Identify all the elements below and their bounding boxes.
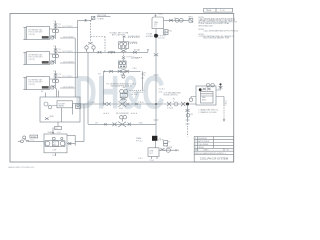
svg-text:DESC: DESC xyxy=(204,150,210,152)
svg-text:PG: PG xyxy=(168,142,170,144)
svg-text:GB-1: GB-1 xyxy=(123,87,127,89)
svg-text:PG: PG xyxy=(164,31,166,33)
svg-text:3: 3 xyxy=(195,141,196,143)
svg-text:ISSUE: ISSUE xyxy=(198,147,204,149)
svg-text:PG-1: PG-1 xyxy=(169,31,173,33)
svg-text:1"x3/4": 1"x3/4" xyxy=(52,150,57,152)
svg-text:PANEL: PANEL xyxy=(59,105,64,108)
svg-text:SKID: SKID xyxy=(50,116,55,118)
svg-text:PG: PG xyxy=(164,33,166,35)
svg-text:RE-ISSUE: RE-ISSUE xyxy=(198,138,207,140)
svg-text:01: 01 xyxy=(144,75,146,77)
svg-text:2"-N-11: 2"-N-11 xyxy=(90,102,96,104)
svg-text:P-1: P-1 xyxy=(53,142,56,144)
svg-text:AT P-2 B/P KPA: AT P-2 B/P KPA xyxy=(112,33,126,36)
svg-text:1"D-3: 1"D-3 xyxy=(52,155,56,157)
svg-text:1-1/2"-CW-102: 1-1/2"-CW-102 xyxy=(63,37,74,39)
svg-text:1-1/2"-N-1: 1-1/2"-N-1 xyxy=(158,38,165,40)
svg-text:GB 50030(PIPE) SCH-40: GB 50030(PIPE) SCH-40 xyxy=(111,85,132,87)
svg-text:DRAIN: DRAIN xyxy=(136,137,142,140)
svg-text:N2 PURGE(2B): N2 PURGE(2B) xyxy=(116,113,129,115)
svg-text:POT: POT xyxy=(154,24,157,26)
svg-text:PG: PG xyxy=(174,18,176,20)
svg-text:POT V-2: POT V-2 xyxy=(136,141,143,143)
svg-text:COG: COG xyxy=(159,92,164,94)
svg-text:4: 4 xyxy=(195,138,196,140)
svg-text:VENT LINE: VENT LINE xyxy=(97,15,107,17)
svg-text:FCV-1: FCV-1 xyxy=(119,108,123,110)
svg-text:2"N-8: 2"N-8 xyxy=(139,122,143,124)
svg-text:HOLDER: HOLDER xyxy=(146,36,153,38)
svg-text:2: 2 xyxy=(195,144,196,146)
svg-text:2"-N-12: 2"-N-12 xyxy=(138,102,144,104)
svg-text:COG_PA G.R SYSTEM: COG_PA G.R SYSTEM xyxy=(200,156,229,160)
svg-text:2"-N-13: 2"-N-13 xyxy=(167,107,173,109)
svg-text:( NOTE ): ( NOTE ) xyxy=(29,34,36,36)
svg-text:VENT: VENT xyxy=(159,13,163,15)
svg-text:CHG ISSUE: CHG ISSUE xyxy=(198,144,209,146)
svg-text:AND DESIGN AT AMBIENT TEMP: AND DESIGN AT AMBIENT TEMP xyxy=(204,37,231,40)
svg-text:1-1/2"-CW-101: 1-1/2"-CW-101 xyxy=(62,26,73,28)
svg-text:HOUSE ( NOTE 2 ): HOUSE ( NOTE 2 ) xyxy=(164,94,179,96)
svg-text:1"-D-1: 1"-D-1 xyxy=(138,158,143,160)
svg-text:2"N-9: 2"N-9 xyxy=(133,68,137,70)
svg-text:( 2 SAMPLE COOLER: ( 2 SAMPLE COOLER xyxy=(199,111,218,114)
svg-text:JOG60: JOG60 xyxy=(31,136,36,138)
svg-text:LS-1: LS-1 xyxy=(31,140,34,142)
svg-text:( 1 ANALYZER UNIT X-1: ( 1 ANALYZER UNIT X-1 xyxy=(199,108,219,111)
svg-text:2. ALL INSTRUMENT AIR SUPPLY F: 2. ALL INSTRUMENT AIR SUPPLY FROM UNIT xyxy=(204,30,239,33)
svg-text:1"-D-2: 1"-D-2 xyxy=(150,160,155,162)
svg-text:1-1/2"-N-10: 1-1/2"-N-10 xyxy=(131,58,139,60)
svg-text:GASHOLDER-1-PID-REV-4-10: GASHOLDER-1-PID-REV-4-10 xyxy=(8,166,34,169)
svg-text:PUMP: PUMP xyxy=(48,132,52,134)
svg-text:2 / 10: 2 / 10 xyxy=(220,10,225,12)
svg-text:SEE DETAIL DWG: SEE DETAIL DWG xyxy=(199,24,214,27)
svg-text:2"-CG-2: 2"-CG-2 xyxy=(224,100,226,106)
svg-text:VENT: VENT xyxy=(189,17,193,19)
svg-text:PI-1: PI-1 xyxy=(191,114,194,116)
svg-text:F.W COOLER UNIT: F.W COOLER UNIT xyxy=(29,32,43,34)
svg-text:APPD ISSUE: APPD ISSUE xyxy=(198,140,210,143)
svg-text:LS: LS xyxy=(159,138,161,140)
svg-text:4"-CG-1: 4"-CG-1 xyxy=(159,89,165,91)
svg-text:PCV-3 SET 0.05: PCV-3 SET 0.05 xyxy=(132,92,144,94)
svg-text:1: 1 xyxy=(195,147,196,149)
svg-text:TO DRN: TO DRN xyxy=(166,147,173,149)
svg-text:1"N: 1"N xyxy=(53,21,55,23)
svg-text:POT: POT xyxy=(150,153,153,155)
svg-text:TO ATM: TO ATM xyxy=(97,17,104,20)
svg-text:PAGE: PAGE xyxy=(206,9,212,12)
svg-text:V-1: V-1 xyxy=(154,26,156,28)
svg-text:FO-1: FO-1 xyxy=(57,132,61,134)
svg-text:SET 1: SET 1 xyxy=(121,74,125,76)
svg-text:DWG NO:GASHOLDER-PID-01/REV4: DWG NO:GASHOLDER-PID-01/REV4 - 1 : xyxy=(195,152,228,155)
